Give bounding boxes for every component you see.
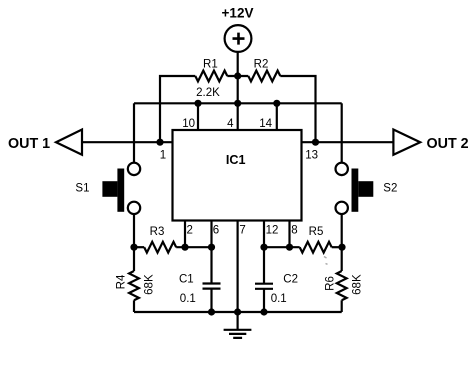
OUT 1 connector triangle xyxy=(56,130,82,155)
wire C2 node to R5 xyxy=(264,246,300,248)
ground xyxy=(224,330,252,338)
wire bus to S2 xyxy=(341,103,343,163)
svg-text:4: 4 xyxy=(227,118,234,130)
wire R3 left lead xyxy=(134,246,144,248)
resistor R4 xyxy=(129,271,139,300)
wire R6 bottom lead xyxy=(341,300,343,312)
wire pin 4 stub xyxy=(237,103,239,130)
wire top bus xyxy=(134,102,342,104)
wire R4 bottom lead xyxy=(133,300,135,312)
wire pin 1 to OUT1 xyxy=(82,141,173,143)
svg-text:14: 14 xyxy=(259,118,272,130)
wire supply to R1/R2 rail xyxy=(237,52,239,76)
svg-text:13: 13 xyxy=(305,149,318,161)
pushbutton S1 xyxy=(102,163,140,214)
OUT 2 connector triangle xyxy=(393,130,420,155)
node pin13 junction xyxy=(312,139,319,146)
wire R1 left lead and drop to pin1 line xyxy=(160,76,195,142)
svg-text:10: 10 xyxy=(182,118,195,130)
svg-text:0.1: 0.1 xyxy=(180,293,196,305)
wire R3 to C1 node xyxy=(176,246,211,248)
wire pin 6 stub xyxy=(210,221,212,248)
svg-text:R5: R5 xyxy=(309,226,324,238)
resistor R5 xyxy=(300,242,332,253)
wire pin12 node to C2 xyxy=(263,247,265,284)
svg-text:2: 2 xyxy=(187,225,193,237)
wire R4 top lead xyxy=(133,247,135,271)
svg-text:7: 7 xyxy=(239,225,245,237)
svg-text:68K: 68K xyxy=(352,274,364,295)
wire bottom bus xyxy=(134,311,342,313)
svg-text:C2: C2 xyxy=(283,274,298,286)
op-amp IC1 body xyxy=(173,130,302,221)
node pin1 junction xyxy=(156,139,163,146)
wire C2 to bottom bus xyxy=(263,289,265,312)
resistor R2 xyxy=(248,71,280,82)
svg-text:12: 12 xyxy=(266,225,279,237)
wire pin 14 stub xyxy=(276,103,278,130)
svg-text:R2: R2 xyxy=(254,59,269,71)
capacitor C1 xyxy=(203,284,221,289)
R5 value remnants (faded) xyxy=(324,257,328,265)
wire between R1 and R2 xyxy=(227,75,248,77)
node pin2/R3 xyxy=(181,244,188,251)
node S1/R3/R4 xyxy=(130,244,137,251)
svg-text:0.1: 0.1 xyxy=(271,293,287,305)
node pin4/bus xyxy=(234,100,241,107)
wire pin6 node to C1 xyxy=(210,247,212,283)
resistor R6 xyxy=(337,271,347,300)
svg-text:R3: R3 xyxy=(150,226,165,238)
svg-text:R6: R6 xyxy=(325,276,337,291)
node C1/bus xyxy=(208,308,215,315)
wire S1 to R3/R4 node xyxy=(133,214,135,247)
svg-text:68K: 68K xyxy=(144,274,156,295)
node pin10/bus xyxy=(194,100,201,107)
svg-text:C1: C1 xyxy=(179,274,194,286)
wire pin 2 stub xyxy=(184,221,186,248)
svg-text:R4: R4 xyxy=(116,274,128,289)
wire S2 to R5/R6 node xyxy=(341,214,343,247)
node pin8/R5 xyxy=(286,244,293,251)
wire pin 12 stub xyxy=(263,221,265,248)
capacitor C2 xyxy=(255,284,273,289)
power supply symbol V1 xyxy=(225,25,252,52)
node supply/rail junction xyxy=(234,72,241,79)
svg-text:R1: R1 xyxy=(203,59,218,71)
wire C1 to bottom bus xyxy=(210,289,212,312)
svg-text:6: 6 xyxy=(213,225,219,237)
wire pin 13 to OUT2 xyxy=(302,141,394,143)
resistor R3 xyxy=(144,242,176,253)
wire R2 right lead and drop to pin13 line xyxy=(280,76,315,142)
node C2/bus xyxy=(260,308,267,315)
node pin7/bus xyxy=(234,308,241,315)
wire pin 10 stub xyxy=(197,103,199,130)
svg-text:OUT 1: OUT 1 xyxy=(8,136,50,152)
wire pin 8 stub xyxy=(288,221,290,248)
pushbutton S2 xyxy=(336,163,374,214)
node pin6/C1 xyxy=(208,244,215,251)
svg-text:OUT 2: OUT 2 xyxy=(427,136,469,152)
wire R5 right lead xyxy=(332,246,342,248)
svg-text:1: 1 xyxy=(160,149,166,161)
wire center rail to bus xyxy=(237,76,239,103)
svg-text:S1: S1 xyxy=(75,183,89,195)
wire bus to S1 xyxy=(133,103,135,163)
wire R6 top lead xyxy=(341,247,343,271)
node pin12/C2 xyxy=(260,244,267,251)
wire pin 7 line to ground xyxy=(237,221,239,331)
svg-text:8: 8 xyxy=(291,225,297,237)
node pin14/bus xyxy=(273,100,280,107)
node S2/R5/R6 xyxy=(338,244,345,251)
svg-text:S2: S2 xyxy=(383,183,397,195)
resistor R1 xyxy=(195,71,227,82)
svg-text:+12V: +12V xyxy=(222,6,254,21)
svg-text:IC1: IC1 xyxy=(226,153,246,167)
svg-text:2.2K: 2.2K xyxy=(196,87,220,99)
